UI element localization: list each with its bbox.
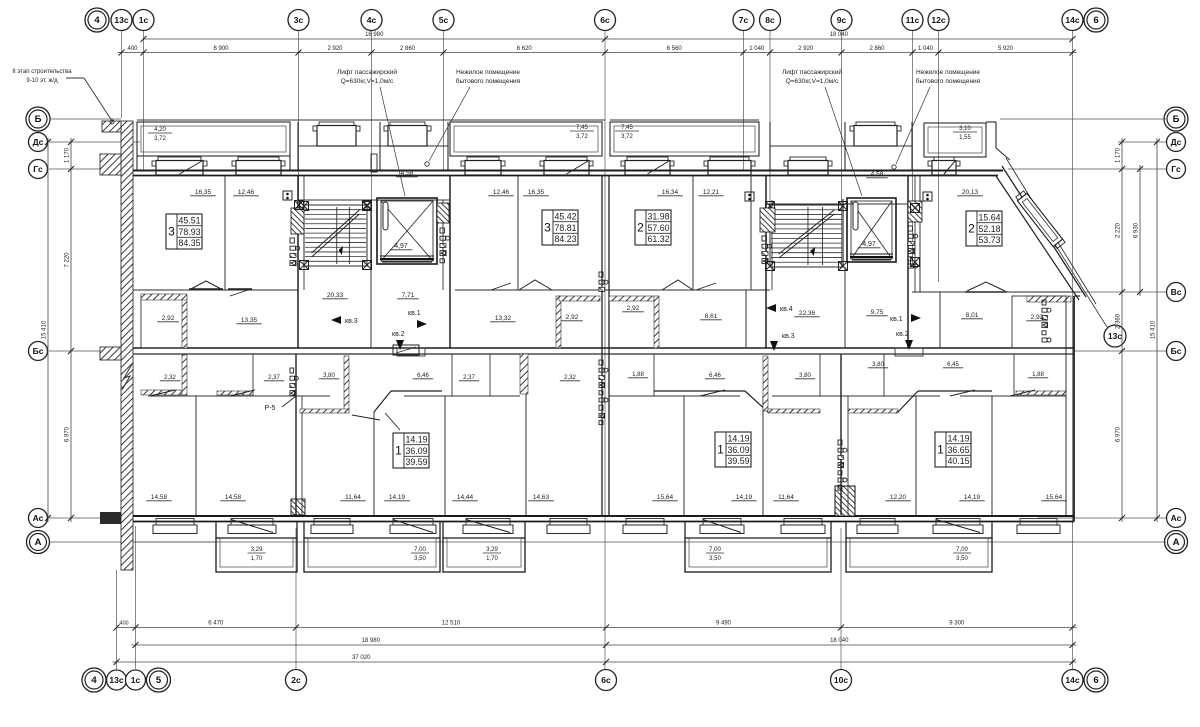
svg-text:12,46: 12,46 [493, 189, 510, 196]
north wall main [133, 170, 1003, 172]
axis circle 11c (top) [902, 10, 923, 31]
corridor door swing 3 [662, 280, 693, 290]
staircase 1 [304, 205, 367, 266]
bottom closet hatch 1 [141, 390, 181, 395]
axis circle 4c (top) [361, 10, 382, 31]
axis line 13c [121, 31, 123, 118]
apartment box 2 (15.64) [966, 211, 1002, 246]
window south 8 [703, 519, 741, 526]
corridor closet 2,92 right [1012, 296, 1066, 348]
svg-text:15 410: 15 410 [1151, 320, 1157, 339]
svg-text:13с: 13с [114, 15, 128, 25]
lobby wall core2 x845 lower [844, 267, 846, 348]
axis circle A (right) [1165, 531, 1188, 554]
diagonal wall north-east [1002, 166, 1086, 297]
closet 3,80 mod3 hatched wall v [763, 356, 768, 411]
axis line 3c [298, 31, 300, 200]
svg-text:3,50: 3,50 [414, 556, 426, 562]
axis line 7c [743, 31, 745, 170]
axis line 11c [912, 31, 914, 267]
axis circle 6c (bottom) [596, 670, 617, 691]
leader line to 13c circle [1046, 230, 1107, 327]
svg-text:4с: 4с [367, 15, 377, 25]
door swing bottom 3 [352, 415, 380, 420]
south balcony 3 [443, 538, 525, 572]
vent block at 2c axis south [291, 499, 305, 515]
svg-text:6: 6 [1093, 15, 1098, 26]
south balcony line [133, 541, 1074, 543]
svg-text:7с: 7с [739, 15, 749, 25]
svg-text:9-10 эт. ж/д: 9-10 эт. ж/д [26, 78, 58, 84]
axis circle 10c (bottom) [831, 670, 852, 691]
expansion joint x602-609 [601, 175, 603, 515]
svg-text:1: 1 [937, 443, 944, 457]
south balcony 5 [846, 538, 992, 572]
window south 9 [784, 519, 822, 526]
axis line Dc right [1118, 141, 1166, 143]
svg-text:39.59: 39.59 [727, 456, 749, 466]
vent shaft cluster core1 right [440, 228, 444, 233]
svg-text:1 040: 1 040 [918, 46, 934, 52]
break mark on left wall [122, 364, 132, 390]
svg-text:Бс: Бс [33, 346, 44, 356]
svg-text:84.35: 84.35 [178, 238, 200, 248]
leader stage II [66, 78, 112, 121]
axis circle B (right) [1164, 107, 1188, 131]
axis line B right [1000, 118, 1166, 120]
svg-text:45.42: 45.42 [554, 212, 576, 222]
svg-text:2,32: 2,32 [164, 375, 176, 381]
window south 6 [550, 519, 587, 526]
closet wall x1014 [1013, 354, 1015, 396]
window south 1 [156, 519, 194, 526]
axis line Bc left [49, 350, 133, 352]
apartment box 2 (31.98) [635, 210, 671, 245]
bottom closet hatch 2 [217, 391, 253, 395]
partition north band x225 [224, 175, 226, 290]
partition north band x920 (kitchen right sect) [919, 175, 921, 292]
svg-text:13,35: 13,35 [241, 317, 258, 324]
svg-text:15,64: 15,64 [1046, 494, 1063, 501]
svg-text:400: 400 [127, 46, 138, 52]
axis circle Vc (right) [1167, 283, 1186, 302]
porch wall core2 right [911, 122, 913, 170]
svg-text:22,36: 22,36 [799, 310, 816, 317]
svg-text:2,92: 2,92 [1031, 314, 1044, 321]
svg-text:84.23: 84.23 [554, 234, 576, 244]
svg-text:3,29: 3,29 [486, 547, 498, 553]
svg-text:3,72: 3,72 [576, 134, 588, 140]
svg-text:6 620: 6 620 [517, 46, 533, 52]
svg-text:15.64: 15.64 [978, 213, 1000, 223]
svg-text:31.98: 31.98 [647, 212, 669, 222]
svg-text:36.65: 36.65 [947, 445, 969, 455]
svg-text:6: 6 [1093, 675, 1098, 686]
bottom room wall x916 [915, 396, 917, 515]
porch slab core1 [298, 145, 448, 147]
axis circle 4 (bottom) [82, 668, 106, 692]
svg-text:14,19: 14,19 [389, 494, 406, 501]
window north 5 [627, 157, 668, 161]
closet 2,32 hatched right wall [182, 355, 187, 395]
window south 3 [314, 519, 350, 526]
svg-text:бытового помещения: бытового помещения [916, 77, 981, 85]
axis circle B (left) [26, 107, 50, 131]
svg-text:6,46: 6,46 [709, 373, 721, 379]
svg-text:78.81: 78.81 [554, 223, 576, 233]
svg-text:7,45: 7,45 [621, 125, 633, 131]
svg-text:12 510: 12 510 [442, 621, 461, 627]
right dimension chain segments [1121, 138, 1123, 522]
svg-text:6,45: 6,45 [947, 362, 959, 368]
bottom room wall x297 (2c axis) [295, 354, 297, 515]
svg-text:12,46: 12,46 [238, 189, 255, 196]
svg-text:1,55: 1,55 [959, 135, 971, 141]
porch wall core1 left [297, 122, 299, 170]
corridor closet 2,92 left [141, 296, 186, 348]
window north 4 [546, 157, 587, 161]
north balcony outer line [137, 119, 605, 121]
svg-text:14,19: 14,19 [736, 494, 753, 501]
entry stoop core2 [895, 348, 923, 356]
axis circle Bc (left) [29, 342, 48, 361]
vent shaft dark block core2 left [760, 208, 775, 232]
axis circle 2c (bottom) [286, 670, 307, 691]
svg-text:5: 5 [156, 675, 162, 686]
svg-text:Р-5: Р-5 [265, 405, 276, 412]
svg-text:10с: 10с [834, 675, 848, 685]
svg-text:1с: 1с [139, 15, 149, 25]
svg-text:14,58: 14,58 [151, 494, 168, 501]
svg-text:Б: Б [1173, 114, 1180, 125]
axis circle Gc (left) [29, 160, 48, 179]
closet wall x884 [883, 354, 885, 396]
svg-text:8с: 8с [765, 15, 775, 25]
svg-text:1с: 1с [131, 675, 141, 685]
svg-text:15,64: 15,64 [657, 494, 674, 501]
svg-text:4: 4 [91, 675, 97, 686]
svg-text:45.51: 45.51 [178, 216, 200, 226]
corridor door swing 1 [491, 283, 511, 290]
bottom room wall x763 [762, 396, 764, 515]
door swing mid 2 [230, 289, 251, 296]
svg-text:Ас: Ас [1171, 513, 1182, 523]
vent shaft cluster core2 right kitchen [908, 226, 912, 231]
svg-text:Ас: Ас [33, 513, 44, 523]
north balcony mid box 7,45 a [450, 122, 602, 156]
svg-text:Q=630кг,V=1,0м/с: Q=630кг,V=1,0м/с [341, 78, 394, 85]
svg-text:16,35: 16,35 [528, 189, 545, 196]
svg-text:61.32: 61.32 [647, 234, 669, 244]
vent symbols core2 upper [745, 192, 754, 201]
svg-text:3,72: 3,72 [621, 134, 633, 140]
svg-text:7,00: 7,00 [709, 547, 721, 553]
left outer hatched wall [121, 121, 133, 570]
axis circle Ac (right) [1167, 509, 1186, 528]
vent shaft dark block core1 right [437, 203, 449, 223]
axis circle 1c (bottom) [126, 670, 146, 690]
hatched partition closet right of joint [609, 296, 654, 301]
vestibule door core1 [371, 154, 377, 172]
hatched partition closet left of joint [559, 296, 600, 301]
svg-text:4,20: 4,20 [154, 127, 166, 133]
wall Vc horizontal (bottom of north rooms) [133, 289, 298, 291]
window north right section [934, 157, 954, 161]
closet mod4 hatched wall h [848, 409, 898, 413]
closet wall x452 [451, 354, 453, 396]
svg-text:6 970: 6 970 [1116, 426, 1122, 442]
svg-text:16 980: 16 980 [365, 32, 384, 38]
partition north band x693 [692, 175, 694, 290]
vent shaft cluster 2c wall [290, 368, 294, 373]
axis circle Gc (right) [1167, 160, 1186, 179]
leader lift right [825, 87, 862, 196]
svg-text:Гс: Гс [33, 164, 43, 174]
window south 7 [626, 519, 664, 526]
svg-text:400: 400 [119, 621, 128, 627]
svg-text:кв.1: кв.1 [408, 310, 421, 317]
svg-text:11,64: 11,64 [778, 494, 794, 501]
bottom room wall x445 [444, 396, 446, 515]
axis circle Dc (left) [29, 133, 48, 152]
leader lift left [380, 87, 405, 196]
closet 3,80 hatched wall h [300, 409, 349, 413]
svg-text:4,58: 4,58 [401, 170, 414, 177]
kitchen 6,46 chamfer diagonal [374, 391, 391, 412]
window north porch core2 [856, 122, 895, 126]
svg-text:Б: Б [35, 114, 42, 125]
svg-text:1,70: 1,70 [486, 556, 498, 562]
svg-text:7 220: 7 220 [65, 252, 71, 268]
svg-text:3,80: 3,80 [872, 362, 884, 368]
svg-text:14с: 14с [1065, 15, 1079, 25]
svg-text:2,37: 2,37 [268, 375, 280, 381]
svg-text:13с: 13с [109, 675, 123, 685]
left pier at Dc level [100, 154, 121, 175]
corridor door swing 4 [696, 283, 716, 290]
partition core1 mid [370, 200, 372, 268]
bottom room wall x374 [373, 412, 375, 515]
svg-text:2: 2 [637, 221, 644, 235]
axis line 2c (bottom) [295, 528, 297, 669]
axis circle 5c (top) [433, 10, 454, 31]
svg-text:39.59: 39.59 [405, 457, 427, 467]
elevator shaft 2 [847, 198, 896, 262]
svg-text:3,80: 3,80 [323, 373, 335, 379]
svg-text:14,58: 14,58 [225, 494, 242, 501]
east wall [1073, 296, 1075, 522]
window south 11 [936, 519, 980, 526]
svg-text:14,44: 14,44 [457, 494, 474, 501]
axis line Gc right [1008, 168, 1166, 170]
svg-text:53.73: 53.73 [978, 235, 1000, 245]
svg-text:1: 1 [395, 444, 402, 458]
window north 1 [158, 157, 201, 161]
axis circle 1c (top) [133, 10, 154, 31]
svg-text:5с: 5с [439, 15, 449, 25]
svg-text:2 920: 2 920 [798, 46, 814, 52]
axis circle 13c (inner right) [1104, 325, 1126, 347]
axis circle 6 (top) [1084, 8, 1108, 32]
axis circle Dc (right) [1167, 133, 1186, 152]
svg-text:2 920: 2 920 [327, 46, 343, 52]
door swing bottom 4 [385, 413, 400, 430]
bottom room wall x684 [683, 396, 685, 515]
svg-text:4,58: 4,58 [871, 171, 884, 178]
svg-text:1,88: 1,88 [1032, 372, 1044, 378]
window south 12 [1020, 519, 1057, 526]
svg-text:7,00: 7,00 [414, 547, 426, 553]
left pier at Ac level [100, 512, 121, 524]
corridor partition x1027 hatched [1027, 296, 1071, 302]
partition core2 mid [842, 199, 844, 267]
left dimension total 15 410 [47, 138, 49, 522]
svg-text:Бс: Бс [1171, 346, 1182, 356]
porch wall core2 mid [844, 122, 846, 170]
bottom dimension chain total 37 020 [113, 661, 1077, 663]
axis circle 6 (bottom) [1084, 668, 1108, 692]
closet 1,88 mod4 hatch [1016, 391, 1066, 395]
core1 porch wall y200 [298, 199, 450, 201]
closet 2,92 hatched right wall [182, 296, 187, 348]
apartment box 1 (36.09) a [393, 433, 429, 468]
window north 3 [467, 157, 499, 161]
svg-text:3,29: 3,29 [251, 547, 263, 553]
axis circle A (left) [27, 531, 50, 554]
svg-text:2,32: 2,32 [564, 375, 576, 381]
staircase 2 [770, 205, 843, 267]
elevator shaft 1 [377, 198, 437, 264]
south balcony 4 [685, 538, 831, 572]
svg-text:9,75: 9,75 [871, 309, 884, 316]
svg-text:6 900: 6 900 [213, 46, 229, 52]
apartment box 3 (45.51) [166, 214, 202, 249]
svg-text:1 170: 1 170 [65, 147, 71, 163]
partition core1 left wall [297, 175, 299, 348]
corridor closet wall x558 hatched [556, 296, 561, 348]
closet wall x253 [252, 354, 254, 396]
axis circle 6c (top) [595, 10, 616, 31]
svg-text:1,88: 1,88 [632, 372, 644, 378]
corridor door swing 2 [519, 280, 552, 290]
svg-text:2 220: 2 220 [1116, 222, 1122, 238]
closet 3,80 mod3 hatched wall h [768, 409, 820, 413]
door swing bottom 2 [230, 390, 255, 396]
axis line Ac left [49, 517, 133, 519]
north balcony mid box 7,45 b [610, 122, 759, 156]
svg-text:40.15: 40.15 [947, 456, 969, 466]
svg-text:14.19: 14.19 [405, 435, 427, 445]
svg-text:Лифт пассажирский: Лифт пассажирский [337, 68, 397, 76]
diagonal balcony outer line [1006, 158, 1096, 304]
svg-text:II этап строительства: II этап строительства [12, 69, 72, 75]
svg-text:16,34: 16,34 [662, 189, 679, 196]
axis line 10c (bottom) [840, 528, 842, 669]
left wall top corner block [102, 121, 121, 132]
axis circle 14c (bottom) [1062, 670, 1083, 691]
svg-text:7,00: 7,00 [956, 547, 968, 553]
porch wall core1 mid [379, 122, 381, 170]
left pier at Bc level [100, 347, 121, 360]
kitchen 6,46 mod3 bottom wall [654, 390, 745, 392]
svg-text:4,97: 4,97 [394, 243, 408, 250]
svg-text:7,71: 7,71 [402, 292, 415, 299]
axis circle 13c (bottom) [107, 670, 127, 690]
svg-text:2 860: 2 860 [869, 46, 885, 52]
top dimension chain total 18 040 (right) [605, 38, 1073, 40]
svg-text:11с: 11с [906, 15, 920, 25]
svg-text:3: 3 [168, 225, 175, 239]
svg-text:8,61: 8,61 [705, 313, 718, 320]
svg-text:6с: 6с [601, 675, 611, 685]
svg-text:14.19: 14.19 [727, 434, 749, 444]
east protrusion wall at Vc [1074, 295, 1080, 297]
window south 5 [466, 519, 510, 526]
hatched partition under closet left [141, 294, 187, 300]
transom window on Bc wall [393, 345, 419, 355]
axis line 4c [371, 31, 373, 266]
svg-text:А: А [35, 537, 42, 548]
axis circle 7c (top) [733, 10, 754, 31]
right dimension chain 6 930 [1139, 165, 1141, 296]
svg-text:3,80: 3,80 [799, 373, 811, 379]
closet wall x490 [489, 354, 491, 396]
xbox core1 porch top [295, 201, 304, 210]
axis line 5c [443, 31, 445, 170]
core2 porch wall y204 [766, 203, 915, 205]
vent shaft cluster joint [599, 272, 603, 277]
svg-text:Дс: Дс [33, 137, 44, 147]
top dimension chain segments [118, 52, 1077, 54]
svg-text:36.09: 36.09 [405, 446, 427, 456]
svg-text:3: 3 [544, 221, 551, 235]
south balcony 2 [304, 538, 440, 572]
svg-text:1,70: 1,70 [251, 556, 263, 562]
svg-text:4: 4 [94, 15, 100, 26]
svg-text:20,13: 20,13 [962, 189, 979, 196]
axis line 6c [604, 31, 606, 669]
svg-text:15 410: 15 410 [42, 320, 48, 339]
leader nonresidential left [429, 87, 470, 161]
svg-text:8,01: 8,01 [966, 312, 979, 319]
axis line Dc left [49, 141, 140, 143]
svg-text:3,72: 3,72 [154, 136, 166, 142]
svg-text:2,37: 2,37 [463, 375, 475, 381]
leader nonresidential right [896, 87, 930, 164]
svg-text:13с: 13с [1108, 331, 1122, 341]
closet wall x654 [653, 354, 655, 396]
svg-text:18 980: 18 980 [362, 638, 381, 644]
svg-text:6 470: 6 470 [208, 621, 224, 627]
svg-text:1 170: 1 170 [1116, 147, 1122, 163]
south wall main [133, 515, 1074, 517]
vent symbols core2 right upper [923, 192, 932, 201]
axis line 8c [769, 31, 771, 204]
svg-text:кв.1: кв.1 [890, 316, 903, 323]
vent shaft dark block core2 right [908, 201, 922, 222]
corridor closet wall x655 hatched [654, 296, 659, 348]
svg-text:3,50: 3,50 [709, 556, 721, 562]
svg-text:12с: 12с [931, 15, 945, 25]
apartment box 3 (45.42) [542, 210, 578, 245]
door swing bottom 5 [700, 390, 725, 396]
axis line A right [1040, 541, 1166, 543]
bottom room wall x526 [525, 354, 527, 515]
svg-text:Нежилое помещение: Нежилое помещение [456, 69, 520, 76]
axis circle 13c (top) [111, 10, 132, 31]
svg-text:6с: 6с [600, 15, 610, 25]
svg-text:9 300: 9 300 [949, 621, 965, 627]
